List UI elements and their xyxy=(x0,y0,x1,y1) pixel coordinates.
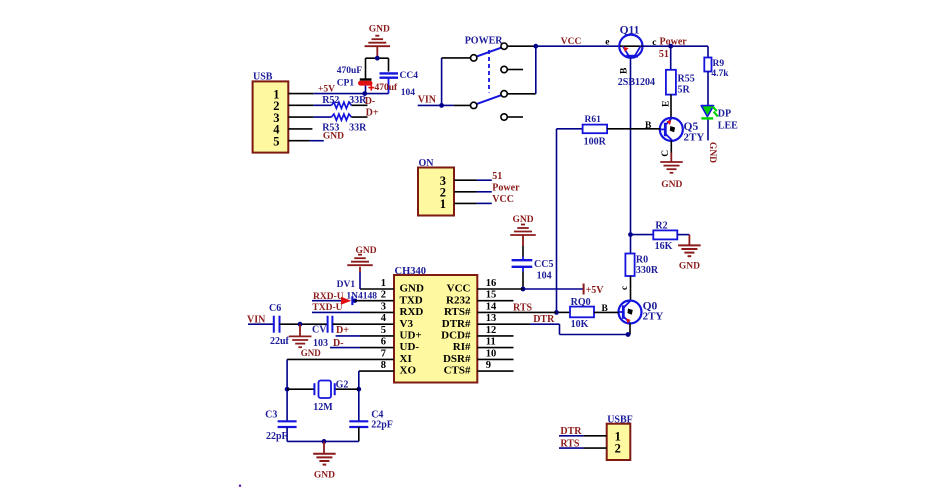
svg-text:1: 1 xyxy=(440,197,446,211)
svg-text:XO: XO xyxy=(400,365,417,377)
svg-text:GND: GND xyxy=(369,25,390,35)
svg-text:Power: Power xyxy=(492,183,520,194)
svg-text:DTR: DTR xyxy=(560,426,582,437)
svg-text:2TY: 2TY xyxy=(684,131,705,143)
svg-text:330R: 330R xyxy=(636,265,659,276)
svg-text:GND: GND xyxy=(314,470,335,480)
svg-text:6: 6 xyxy=(381,337,386,348)
svg-text:GND: GND xyxy=(513,215,534,225)
svg-text:DSR#: DSR# xyxy=(443,353,471,365)
svg-text:22pF: 22pF xyxy=(266,431,288,442)
svg-text:RTS: RTS xyxy=(513,302,533,313)
svg-text:RTS: RTS xyxy=(560,439,580,450)
svg-text:3: 3 xyxy=(381,301,386,312)
svg-text:CC5: CC5 xyxy=(534,259,553,270)
svg-text:9: 9 xyxy=(486,360,491,371)
svg-text:VCC: VCC xyxy=(561,37,582,47)
svg-text:C3: C3 xyxy=(265,409,277,420)
svg-text:2: 2 xyxy=(615,442,621,456)
svg-text:5: 5 xyxy=(273,135,279,149)
svg-text:16K: 16K xyxy=(655,241,673,252)
svg-text:1: 1 xyxy=(381,278,386,289)
svg-text:B: B xyxy=(645,121,652,131)
svg-text:33R: 33R xyxy=(349,122,367,133)
svg-text:GND: GND xyxy=(400,283,425,295)
svg-text:22pF: 22pF xyxy=(371,420,393,431)
svg-text:E: E xyxy=(662,101,672,107)
svg-text:GND: GND xyxy=(679,261,700,271)
svg-text:5R: 5R xyxy=(678,85,691,96)
svg-text:V3: V3 xyxy=(400,318,414,330)
svg-text:DTR: DTR xyxy=(533,314,555,325)
svg-text:R55: R55 xyxy=(678,74,695,85)
svg-text:2TY: 2TY xyxy=(643,311,664,323)
svg-text:D+: D+ xyxy=(336,325,349,336)
svg-text:8: 8 xyxy=(381,360,386,371)
svg-text:RI#: RI# xyxy=(453,341,471,353)
svg-text:TXD: TXD xyxy=(400,294,423,306)
svg-text:R9: R9 xyxy=(713,59,725,69)
svg-text:POWER: POWER xyxy=(465,36,504,47)
svg-text:C6: C6 xyxy=(269,303,281,314)
svg-text:CH340: CH340 xyxy=(395,266,427,277)
svg-text:104: 104 xyxy=(537,270,552,281)
svg-text:13: 13 xyxy=(486,313,497,324)
svg-text:D+: D+ xyxy=(366,107,379,118)
svg-text:22uf: 22uf xyxy=(270,336,290,347)
svg-text:CV: CV xyxy=(312,325,327,336)
svg-text:11: 11 xyxy=(486,337,496,348)
svg-text:VCC: VCC xyxy=(492,194,514,205)
svg-text:14: 14 xyxy=(486,301,497,312)
svg-text:DTR#: DTR# xyxy=(442,318,471,330)
svg-text:USB: USB xyxy=(253,72,273,83)
svg-text:VCC: VCC xyxy=(447,283,471,295)
svg-text:GND: GND xyxy=(707,142,717,163)
svg-text:12: 12 xyxy=(486,325,497,336)
svg-text:GND: GND xyxy=(301,348,322,358)
svg-text:LEE: LEE xyxy=(718,120,738,131)
svg-text:4.7k: 4.7k xyxy=(711,69,729,79)
svg-text:RXD-U: RXD-U xyxy=(313,292,344,302)
svg-text:2SB1204: 2SB1204 xyxy=(618,77,655,88)
svg-text:+5V: +5V xyxy=(318,84,335,94)
svg-text:VIN: VIN xyxy=(418,94,437,105)
svg-text:103: 103 xyxy=(313,338,328,349)
svg-text:7: 7 xyxy=(381,348,386,359)
svg-text:100R: 100R xyxy=(584,136,607,147)
svg-text:B: B xyxy=(620,67,630,74)
svg-text:5: 5 xyxy=(381,325,386,336)
svg-text:UD-: UD- xyxy=(400,341,420,353)
svg-text:R0: R0 xyxy=(636,255,648,266)
svg-text:10: 10 xyxy=(486,348,497,359)
svg-text:G2: G2 xyxy=(336,380,349,391)
svg-text:D-: D- xyxy=(333,338,344,349)
svg-text:1N4148: 1N4148 xyxy=(346,291,377,301)
svg-text:RTS#: RTS# xyxy=(444,306,471,318)
svg-text:c: c xyxy=(619,286,629,290)
svg-text:16: 16 xyxy=(486,278,497,289)
svg-text:R232: R232 xyxy=(446,294,471,306)
svg-text:Power: Power xyxy=(660,37,688,48)
svg-text:DV1: DV1 xyxy=(337,280,356,290)
svg-text:GND: GND xyxy=(355,246,376,256)
svg-text:R61: R61 xyxy=(585,115,602,125)
svg-text:DCD#: DCD# xyxy=(441,330,471,342)
svg-text:RQ0: RQ0 xyxy=(571,297,591,308)
svg-text:12M: 12M xyxy=(313,402,333,413)
svg-text:2: 2 xyxy=(381,290,386,301)
svg-text:CTS#: CTS# xyxy=(444,365,471,377)
svg-text:USBF: USBF xyxy=(607,414,633,425)
svg-text:15: 15 xyxy=(486,290,497,301)
svg-text:C: C xyxy=(661,150,671,157)
svg-text:51: 51 xyxy=(492,171,502,182)
svg-text:TXD-U: TXD-U xyxy=(312,303,342,313)
svg-text:RXD: RXD xyxy=(400,306,424,318)
svg-text:ON: ON xyxy=(419,158,435,169)
svg-text:10K: 10K xyxy=(571,319,589,330)
svg-text:UD+: UD+ xyxy=(400,330,422,342)
svg-text:104: 104 xyxy=(401,88,416,98)
svg-text:4: 4 xyxy=(381,313,387,324)
svg-text:R2: R2 xyxy=(655,221,667,232)
svg-text:GND: GND xyxy=(323,131,344,141)
svg-text:51: 51 xyxy=(659,49,669,60)
svg-text:470uf: 470uf xyxy=(375,83,399,93)
svg-text:GND: GND xyxy=(661,180,682,190)
svg-text:+5V: +5V xyxy=(586,285,605,296)
svg-text:CC4: CC4 xyxy=(400,71,419,81)
svg-text:CP1: CP1 xyxy=(337,78,355,88)
svg-text:DP: DP xyxy=(718,109,731,120)
svg-text:D-: D- xyxy=(365,96,376,107)
svg-text:R52: R52 xyxy=(322,95,339,106)
svg-text:XI: XI xyxy=(400,353,412,365)
svg-text:470uF: 470uF xyxy=(337,66,363,76)
svg-text:e: e xyxy=(605,38,609,48)
